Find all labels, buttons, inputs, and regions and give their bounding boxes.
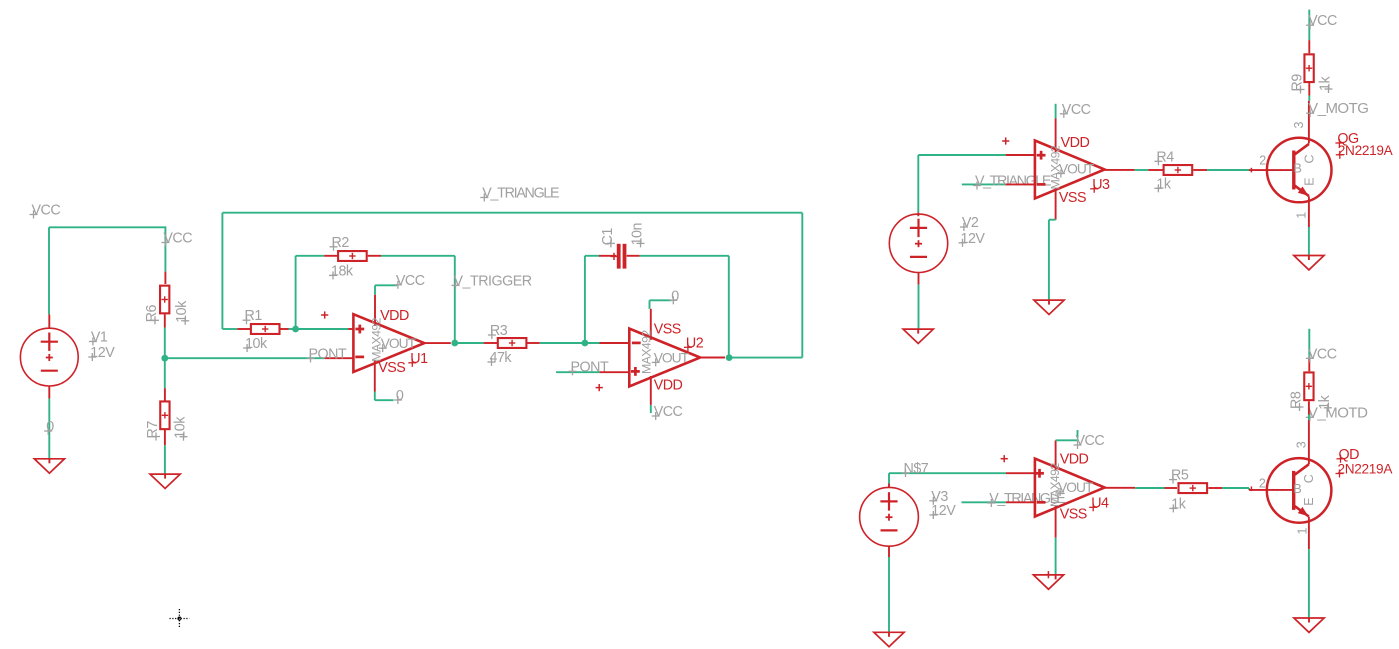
svg-text:10k: 10k (173, 416, 189, 439)
svg-text:3: 3 (1295, 441, 1309, 448)
value label 10k (243, 336, 268, 352)
pin name VSS (378, 360, 405, 376)
svg-text:MAX492: MAX492 (640, 330, 654, 374)
wire (454, 256, 456, 343)
origin cross U1 (321, 311, 328, 318)
wire (1207, 169, 1249, 171)
sheet origin marker (170, 609, 190, 628)
label V1 (89, 330, 108, 346)
svg-text:R4: R4 (1156, 149, 1174, 165)
junction (726, 354, 733, 361)
wire (584, 256, 586, 343)
svg-text:MAX492: MAX492 (370, 317, 384, 361)
pin U3.+IN (1006, 154, 1035, 156)
net label VCC (161, 231, 192, 247)
svg-text:B: B (1294, 161, 1302, 175)
resistor R6 (160, 286, 169, 314)
pin name + (631, 367, 640, 376)
wire (1048, 220, 1050, 300)
svg-text:R7: R7 (145, 421, 161, 439)
voltage source V1 (20, 328, 78, 386)
svg-text:E: E (1303, 178, 1317, 186)
net label VCC (1306, 346, 1337, 362)
value label U4 (1048, 463, 1062, 507)
resistor R5 (1179, 483, 1208, 493)
pin R3.1 (484, 342, 498, 344)
value label 1k (1317, 394, 1333, 411)
svg-text:10k: 10k (245, 336, 268, 352)
wire (1055, 104, 1057, 119)
pin R9.1 (1308, 40, 1310, 53)
wire (455, 342, 484, 344)
pin number 1 (1296, 528, 1310, 535)
ground (1033, 575, 1063, 589)
pin U3.VDD (1055, 119, 1057, 153)
label U1 (408, 351, 428, 367)
svg-text:18k: 18k (331, 263, 354, 279)
pin name VDD (380, 308, 409, 324)
junction PONT (161, 355, 168, 362)
pin R9.2 (1308, 83, 1310, 96)
pin U4.-IN (1006, 501, 1035, 503)
svg-text:VDD: VDD (380, 308, 409, 324)
svg-text:PONT: PONT (309, 346, 347, 362)
svg-text:N$7: N$7 (904, 461, 929, 477)
label R2 (330, 235, 350, 251)
svg-text:V_TRIGGER: V_TRIGGER (454, 273, 532, 289)
svg-text:VCC: VCC (396, 273, 425, 289)
svg-text:VCC: VCC (163, 231, 192, 247)
pin name VDD (1060, 452, 1089, 468)
wire V_TRIANGLE (222, 212, 802, 214)
svg-text:VCC: VCC (1308, 13, 1337, 29)
wire PONT (165, 357, 325, 359)
svg-text:R1: R1 (245, 308, 263, 324)
pin U1.OUT (424, 342, 451, 344)
svg-text:12V: 12V (961, 231, 986, 247)
svg-text:12V: 12V (90, 345, 115, 361)
wire (1248, 488, 1250, 490)
resistor R2 (338, 251, 367, 261)
wire (48, 399, 50, 459)
supply pin VCC (1077, 430, 1079, 438)
svg-text:2N2219A: 2N2219A (1338, 143, 1394, 158)
value label 1k (1318, 76, 1334, 93)
wire (221, 213, 223, 329)
pin name VOUT (1056, 480, 1094, 496)
wire (917, 155, 919, 213)
pin name - (632, 342, 641, 345)
net label VCC (652, 404, 683, 420)
resistor R3 (498, 338, 527, 348)
pin name - (1037, 183, 1046, 186)
net label PONT (307, 346, 347, 362)
wire (164, 358, 166, 388)
svg-text:R6: R6 (144, 304, 160, 322)
svg-text:VOUT: VOUT (1058, 480, 1094, 495)
wire (295, 256, 297, 329)
label R6 (144, 304, 160, 324)
svg-text:10n: 10n (630, 222, 646, 245)
svg-text:R5: R5 (1171, 468, 1189, 484)
pin U2.OUT (700, 357, 725, 359)
wire (375, 284, 397, 286)
label U2 (684, 335, 704, 351)
wire (1056, 439, 1078, 441)
wire (1222, 487, 1249, 489)
svg-text:VOUT: VOUT (1059, 162, 1095, 177)
value label 18k (329, 263, 354, 279)
wire (296, 328, 349, 330)
wire (585, 255, 600, 257)
wire (222, 328, 237, 330)
wire (918, 154, 1005, 156)
pin name VOUT (1057, 162, 1095, 178)
pin number 2 (1259, 154, 1266, 168)
value label 10k (174, 300, 190, 325)
net label 0 (394, 388, 404, 404)
wire (374, 392, 376, 401)
wire PONT (556, 371, 600, 373)
svg-text:VCC: VCC (1308, 346, 1337, 362)
value label 12V (929, 503, 956, 519)
svg-text:U3: U3 (1092, 177, 1110, 193)
pin number 3 (1295, 441, 1309, 448)
label U4 (1089, 495, 1109, 511)
svg-text:2N2219A: 2N2219A (1338, 462, 1394, 477)
pin R7.1 (164, 388, 166, 401)
net label VCC (1060, 102, 1091, 118)
resistor R8 (1304, 372, 1313, 400)
wire (49, 226, 165, 228)
pin R1.2 (280, 328, 288, 330)
ground (1294, 618, 1324, 632)
svg-text:R2: R2 (332, 235, 350, 251)
net label PONT (569, 359, 609, 375)
pin V2.+ (917, 213, 919, 217)
svg-text:U2: U2 (686, 335, 704, 351)
pin R6.2 (164, 314, 166, 327)
wire (1135, 169, 1149, 171)
label V2 (960, 215, 979, 231)
value label 47k (488, 350, 513, 366)
svg-text:R8: R8 (1289, 391, 1305, 409)
pin U1.-IN (325, 357, 354, 359)
pin U4.OUT (1105, 487, 1136, 489)
svg-text:VOUT: VOUT (381, 336, 417, 351)
wire (1055, 538, 1057, 575)
svg-text:1: 1 (1294, 212, 1308, 219)
wire (729, 357, 802, 359)
label R1 (243, 308, 263, 324)
pin U2.-IN (600, 342, 630, 344)
resistor R7 (160, 401, 169, 429)
wire (640, 255, 729, 257)
wire N$7 (889, 472, 1006, 474)
net label V_MOTD (1306, 404, 1368, 421)
svg-text:V_MOTG: V_MOTG (1308, 100, 1368, 117)
label V3 (929, 489, 948, 505)
pin U4.VDD (1055, 440, 1057, 470)
pin V3.- (888, 546, 890, 557)
wire (1308, 227, 1310, 256)
svg-text:U4: U4 (1091, 495, 1109, 511)
wire (1049, 219, 1056, 221)
wire (164, 328, 166, 359)
transistor QD (1267, 458, 1332, 523)
pin U1.VSS (374, 360, 376, 392)
net label V_MOTG (1306, 100, 1368, 117)
value label 12V (88, 345, 115, 361)
svg-text:QD: QD (1339, 447, 1360, 463)
svg-text:VCC: VCC (1076, 433, 1105, 449)
junction (292, 326, 299, 333)
svg-text:C: C (1302, 474, 1316, 483)
pin name + (355, 325, 364, 334)
wire (48, 227, 50, 314)
label R8 (1289, 391, 1305, 411)
origin cross gnd (1045, 571, 1052, 578)
pin name B (1294, 161, 1302, 175)
svg-text:VSS: VSS (1060, 507, 1087, 523)
value label U3 (1049, 145, 1063, 189)
net label V_TRIANGLE (987, 491, 1065, 507)
svg-text:VCC: VCC (1062, 102, 1091, 118)
label R9 (1290, 74, 1306, 94)
pin name C (1302, 474, 1316, 483)
pin name VDD (654, 378, 683, 394)
wire (1308, 549, 1310, 618)
svg-text:VOUT: VOUT (654, 350, 690, 365)
pin name VSS (654, 322, 681, 338)
pin QG.E (1308, 196, 1310, 227)
pin R3.2 (527, 342, 540, 344)
label R3 (488, 323, 508, 339)
pin number 1 (1294, 212, 1308, 219)
pin U3.-IN (1006, 183, 1035, 185)
svg-text:C: C (1303, 155, 1317, 164)
net label 0 (44, 419, 54, 435)
wire (1308, 10, 1310, 40)
pin V1.+ (48, 314, 50, 328)
pin U1.+IN (348, 328, 353, 330)
capacitor C1 (619, 244, 625, 269)
voltage source V2 (889, 214, 947, 272)
pin name - (1037, 501, 1046, 504)
net label 0 (669, 288, 679, 304)
pin C1.2 (627, 255, 640, 257)
svg-text:VCC: VCC (32, 203, 61, 219)
label C1 (600, 228, 616, 248)
pin QD.E (1308, 517, 1310, 549)
pin U4.VSS (1055, 506, 1057, 538)
net label V_TRIGGER (452, 273, 532, 289)
wire (540, 342, 600, 344)
svg-text:VSS: VSS (1059, 190, 1086, 206)
pin name VSS (1060, 507, 1087, 523)
label QD (1337, 447, 1360, 463)
pin R4.1 (1148, 169, 1163, 171)
op-amp U2 (629, 329, 700, 387)
pin name E (1303, 178, 1317, 186)
svg-text:VSS: VSS (654, 322, 681, 338)
ground (1034, 300, 1064, 314)
value label U2 (640, 330, 654, 374)
net label VCC (1306, 13, 1337, 29)
svg-text:2: 2 (1259, 154, 1266, 168)
svg-text:R3: R3 (490, 323, 508, 339)
wire (888, 473, 890, 483)
svg-text:C1: C1 (600, 228, 616, 246)
pin QD.C (1308, 420, 1310, 465)
label U3 (1090, 177, 1110, 193)
svg-text:VCC: VCC (654, 404, 683, 420)
svg-text:B: B (1293, 482, 1301, 496)
junction (582, 340, 589, 347)
net label V_TRIANGLE (973, 174, 1051, 190)
svg-text:VDD: VDD (654, 378, 683, 394)
label R5 (1169, 468, 1189, 484)
wire (918, 285, 920, 330)
svg-text:0: 0 (396, 388, 404, 404)
op-amp U1 (353, 314, 424, 372)
value label 2N2219A (1336, 143, 1394, 159)
pin U2.VDD (650, 376, 652, 405)
pin R5.2 (1208, 487, 1222, 489)
wire (164, 445, 166, 474)
svg-text:V_TRIANGLE: V_TRIANGLE (975, 174, 1051, 190)
pin name VOUT (652, 350, 690, 366)
pin name + (1035, 469, 1044, 478)
svg-text:E: E (1302, 498, 1316, 506)
pin QG.B (1249, 168, 1292, 173)
value label U1 (370, 317, 384, 361)
ground (903, 329, 933, 343)
pin R1.1 (237, 328, 250, 330)
net label N$7 (902, 461, 929, 477)
svg-text:R9: R9 (1290, 74, 1306, 92)
pin U3.OUT (1105, 169, 1135, 171)
origin cross C1 (610, 253, 617, 260)
svg-text:VDD: VDD (1060, 452, 1089, 468)
origin cross U2 (596, 384, 603, 391)
op-amp U3 (1035, 141, 1105, 199)
wire (650, 299, 672, 301)
svg-text:10k: 10k (174, 300, 190, 323)
value label 12V (959, 231, 986, 247)
pin name + (1037, 151, 1046, 160)
pin number 3 (1292, 122, 1306, 129)
wire V_TRIANGLE (962, 183, 1006, 185)
svg-text:1: 1 (1296, 528, 1310, 535)
pin R6.1 (164, 272, 166, 284)
pin R4.2 (1193, 169, 1207, 171)
junction (451, 340, 458, 347)
svg-text:2: 2 (1259, 476, 1266, 490)
pin name - (355, 356, 364, 359)
pin R2.2 (368, 255, 381, 257)
svg-text:U1: U1 (410, 351, 428, 367)
svg-text:0: 0 (46, 419, 54, 435)
wire (728, 256, 730, 358)
net label VCC (1074, 433, 1105, 449)
svg-text:MAX492: MAX492 (1048, 463, 1062, 507)
resistor R9 (1304, 54, 1313, 82)
pin name C (1303, 155, 1317, 164)
label QG (1335, 131, 1359, 147)
net label VCC (394, 273, 425, 289)
net label V_TRIANGLE (480, 186, 559, 202)
pin U3.VSS (1055, 188, 1057, 220)
wire (1308, 329, 1310, 359)
resistor R1 (251, 324, 280, 334)
svg-text:MAX492: MAX492 (1049, 145, 1063, 189)
pin R8.2 (1308, 401, 1310, 414)
pin U2.VSS (650, 309, 652, 340)
svg-text:V_TRIANGLE: V_TRIANGLE (482, 186, 559, 202)
wire (1308, 415, 1310, 420)
origin cross U4 (1001, 455, 1008, 462)
svg-text:VDD: VDD (1061, 135, 1090, 151)
pin name VOUT (379, 336, 417, 352)
wire (164, 226, 166, 271)
pin name VSS (1059, 190, 1086, 206)
op-amp U4 (1035, 459, 1105, 517)
wire (296, 255, 325, 257)
ground (150, 474, 180, 488)
value label 10n (630, 222, 646, 247)
pin name VDD (1061, 135, 1090, 151)
resistor R4 (1164, 165, 1193, 175)
svg-text:3: 3 (1292, 122, 1306, 129)
pin U1.VDD (374, 295, 376, 326)
value label 1k (1169, 496, 1186, 512)
pin number 2 (1259, 476, 1266, 490)
pin V3.+ (888, 484, 890, 488)
net label VCC (30, 203, 61, 219)
transistor QG (1267, 138, 1332, 203)
wire (381, 255, 455, 257)
wire (1135, 487, 1164, 489)
label R7 (145, 421, 161, 441)
pin name B (1293, 482, 1301, 496)
value label 10k (173, 416, 189, 441)
label R4 (1154, 149, 1174, 165)
wire (650, 405, 652, 413)
pin C1.1 (599, 255, 616, 257)
wire (649, 300, 651, 309)
svg-text:12V: 12V (931, 503, 956, 519)
wire (888, 557, 890, 632)
pin R8.1 (1308, 359, 1310, 371)
pin V2.- (918, 272, 920, 285)
ground (1294, 256, 1324, 270)
pin QD.B (1249, 487, 1292, 492)
wire (1308, 96, 1310, 101)
pin R2.1 (324, 255, 337, 257)
wire (289, 328, 296, 330)
wire (801, 213, 803, 358)
voltage source V3 (860, 487, 919, 546)
value label 1k (1154, 176, 1171, 192)
pin R5.1 (1165, 487, 1178, 489)
wire (375, 399, 394, 401)
pin R7.2 (164, 430, 166, 445)
pin V1.- (48, 386, 50, 399)
pin U4.+IN (1006, 472, 1035, 474)
pin QG.C (1308, 101, 1310, 144)
wire V_TRIANGLE (962, 501, 1006, 503)
